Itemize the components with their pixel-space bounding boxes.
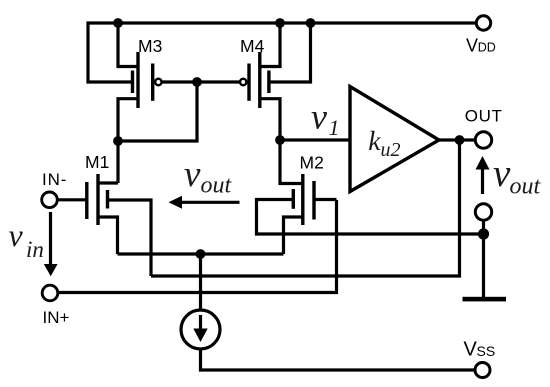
node dot gate net — [192, 77, 202, 87]
terminal VDD — [476, 16, 490, 30]
svg-text:IN-: IN- — [42, 170, 67, 189]
svg-text:V: V — [464, 339, 478, 361]
svg-text:out: out — [510, 174, 542, 200]
wire M1 bulk lead — [109, 200, 151, 276]
svg-text:v: v — [311, 96, 327, 136]
node dot rail left — [113, 18, 123, 28]
transistor M3 — [118, 23, 162, 141]
terminal v_out reference — [475, 204, 491, 220]
wire M3 drain to M1 drain — [116, 141, 119, 183]
svg-text:v: v — [493, 152, 511, 195]
wire gate net M3-M4 — [162, 80, 240, 83]
ground — [463, 297, 507, 302]
label OUT — [465, 106, 503, 125]
svg-text:u2: u2 — [381, 139, 401, 161]
transistor M4 — [240, 23, 280, 140]
svg-text:v: v — [9, 217, 24, 253]
label M1 — [85, 152, 109, 172]
svg-text:OUT: OUT — [465, 106, 503, 125]
wire M4 bulk to VDD — [271, 23, 311, 82]
current source I_tail — [181, 254, 474, 370]
node dot rail M4 bulk — [306, 18, 316, 28]
label v1 — [311, 96, 340, 139]
label M3 — [138, 36, 162, 56]
svg-text:k: k — [368, 125, 381, 156]
svg-text:out: out — [201, 173, 233, 199]
wire tail net — [118, 252, 284, 255]
wire diode connection — [118, 82, 197, 141]
svg-text:DD: DD — [478, 41, 496, 55]
label IN+ — [43, 308, 70, 327]
label M4 — [240, 36, 265, 56]
svg-text:V: V — [466, 35, 478, 55]
svg-text:M2: M2 — [300, 153, 324, 173]
wire IN+ to M2 gate — [58, 200, 337, 293]
svg-text:v: v — [184, 154, 201, 195]
wire feedback OUT to M1 bulk — [151, 140, 460, 276]
label M2 — [300, 153, 324, 173]
wire M2 bulk to ground node — [257, 200, 484, 235]
svg-text:M4: M4 — [240, 36, 265, 56]
node dot mirror net — [113, 136, 123, 146]
label ku2 — [368, 125, 400, 161]
terminal IN+ — [42, 285, 58, 301]
transistor M1 — [87, 174, 118, 254]
arrow v_out middle — [169, 196, 240, 209]
terminal OUT — [475, 132, 491, 148]
label v_in — [9, 217, 44, 262]
wire reference to ground — [482, 220, 485, 297]
wire VDD rail — [88, 23, 475, 82]
svg-text:in: in — [26, 237, 44, 262]
label v_out middle — [184, 154, 233, 199]
wire amp output to OUT — [439, 138, 475, 141]
node dot v1 — [275, 135, 285, 145]
label VDD — [466, 35, 496, 55]
node dot tail — [196, 249, 206, 259]
svg-text:M1: M1 — [85, 152, 109, 172]
node dot ground net — [478, 228, 489, 239]
transistor M2 — [280, 140, 337, 254]
node dot amp output — [455, 135, 465, 145]
arrow v_out right — [476, 156, 490, 194]
wire IN- to M1 gate — [58, 198, 87, 201]
label v_out right — [493, 152, 542, 200]
arrow v_in — [44, 212, 58, 276]
svg-text:1: 1 — [329, 115, 340, 140]
op-amp U1 ku2 — [350, 87, 439, 192]
svg-text:M3: M3 — [138, 36, 162, 56]
svg-text:IN+: IN+ — [43, 308, 70, 327]
terminal IN- — [42, 192, 58, 208]
node dot rail M4 source — [275, 18, 285, 28]
label IN- — [42, 170, 67, 189]
label VSS — [464, 339, 496, 361]
svg-text:SS: SS — [477, 343, 496, 359]
wire v1 to amplifier — [280, 138, 350, 141]
terminal VSS — [475, 363, 490, 378]
